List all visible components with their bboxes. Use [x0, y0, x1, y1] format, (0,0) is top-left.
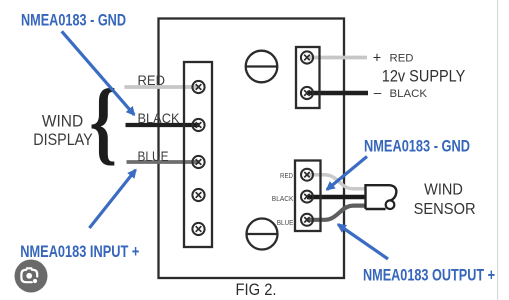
arrow NMEA0183 INPUT to blue wire	[89, 170, 135, 228]
terminal screw L2	[192, 119, 204, 131]
wire BLACK (12v supply)	[307, 91, 368, 96]
wire BLACK (wind sensor)	[307, 195, 366, 200]
wire RED (12v supply)	[307, 56, 367, 60]
terminal screw L1	[192, 81, 204, 93]
svg-text:SENSOR: SENSOR	[414, 201, 476, 218]
svg-text:+: +	[373, 50, 381, 66]
svg-text:FIG 2.: FIG 2.	[236, 281, 277, 299]
mounting screw top (slotted)	[246, 51, 278, 83]
svg-text:NMEA0183 INPUT +: NMEA0183 INPUT +	[20, 243, 139, 261]
wind sensor connector plug	[366, 185, 397, 209]
wire BLUE (wind sensor)	[307, 206, 366, 220]
svg-text:NMEA0183 OUTPUT +: NMEA0183 OUTPUT +	[363, 267, 495, 285]
svg-text:WIND: WIND	[42, 112, 83, 131]
arrow NMEA0183 GND to black wire	[62, 31, 135, 115]
svg-text:BLUE: BLUE	[138, 148, 169, 164]
terminal screw S2	[301, 87, 313, 99]
terminal strip wind sensor	[295, 161, 321, 232]
wire BLACK (wind display)	[126, 123, 200, 127]
arrow NMEA0183 GND to sensor red terminal	[327, 157, 367, 190]
terminal screw W1	[301, 169, 313, 181]
wire RED (wind display)	[125, 85, 200, 89]
svg-text:BLUE: BLUE	[277, 218, 294, 227]
svg-text:–: –	[374, 85, 382, 100]
wire RED (wind sensor)	[307, 175, 366, 189]
svg-text:BLACK: BLACK	[138, 110, 181, 126]
mounting screw bottom (slotted)	[247, 219, 278, 250]
svg-text:BLACK: BLACK	[390, 88, 428, 100]
terminal strip left (display connections)	[184, 62, 212, 247]
terminal screw L3	[192, 156, 204, 168]
terminal screw W2	[301, 191, 313, 203]
arrow NMEA0183 OUTPUT to sensor blue wire	[338, 225, 388, 260]
svg-text:WIND: WIND	[424, 182, 463, 199]
terminal screw S1	[301, 51, 313, 63]
svg-text:RED: RED	[390, 53, 414, 65]
brace wind display	[89, 70, 117, 174]
svg-text:RED: RED	[280, 171, 293, 180]
screenshot right edge line	[497, 0, 498, 300]
svg-text:{: {	[89, 70, 117, 174]
junction box enclosure	[159, 19, 345, 279]
svg-text:DISPLAY: DISPLAY	[33, 130, 93, 149]
svg-text:RED: RED	[138, 72, 166, 88]
terminal screw L5	[192, 223, 204, 235]
terminal strip 12v supply	[296, 47, 320, 108]
svg-text:BLACK: BLACK	[272, 194, 294, 203]
terminal screw L4	[192, 189, 204, 201]
svg-text:NMEA0183 - GND: NMEA0183 - GND	[21, 12, 126, 30]
svg-text:NMEA0183 - GND: NMEA0183 - GND	[364, 138, 470, 156]
svg-text:12v SUPPLY: 12v SUPPLY	[382, 68, 466, 86]
google lens button	[15, 260, 48, 293]
terminal screw W3	[301, 214, 313, 226]
wire BLUE (wind display)	[127, 160, 200, 164]
